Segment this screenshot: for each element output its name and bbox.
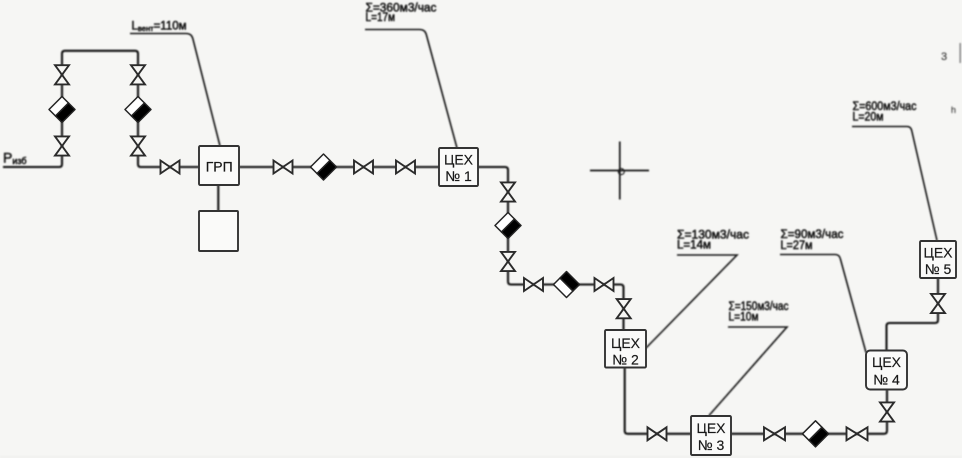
svg-text:ЦЕХ: ЦЕХ	[923, 245, 953, 261]
svg-text:L=10м: L=10м	[729, 312, 759, 324]
svg-text:№ 3: № 3	[698, 437, 725, 453]
svg-text:ЦЕХ: ЦЕХ	[611, 335, 641, 351]
svg-text:№ 2: № 2	[612, 352, 639, 368]
svg-text:L=14м: L=14м	[677, 240, 711, 252]
svg-text:h: h	[951, 105, 956, 115]
svg-text:L=17м: L=17м	[366, 12, 396, 24]
svg-text:№ 5: № 5	[925, 261, 952, 277]
svg-text:ЦЕХ: ЦЕХ	[696, 420, 726, 436]
svg-text:ЦЕХ: ЦЕХ	[872, 354, 902, 370]
svg-text:№ 4: № 4	[873, 372, 900, 388]
svg-text:ГРП: ГРП	[206, 159, 233, 175]
svg-text:L=27м: L=27м	[781, 240, 813, 252]
svg-text:№ 1: № 1	[445, 168, 472, 184]
svg-text:L=20м: L=20м	[853, 112, 884, 124]
svg-text:ЦЕХ: ЦЕХ	[444, 152, 474, 168]
svg-text:3: 3	[941, 51, 947, 63]
